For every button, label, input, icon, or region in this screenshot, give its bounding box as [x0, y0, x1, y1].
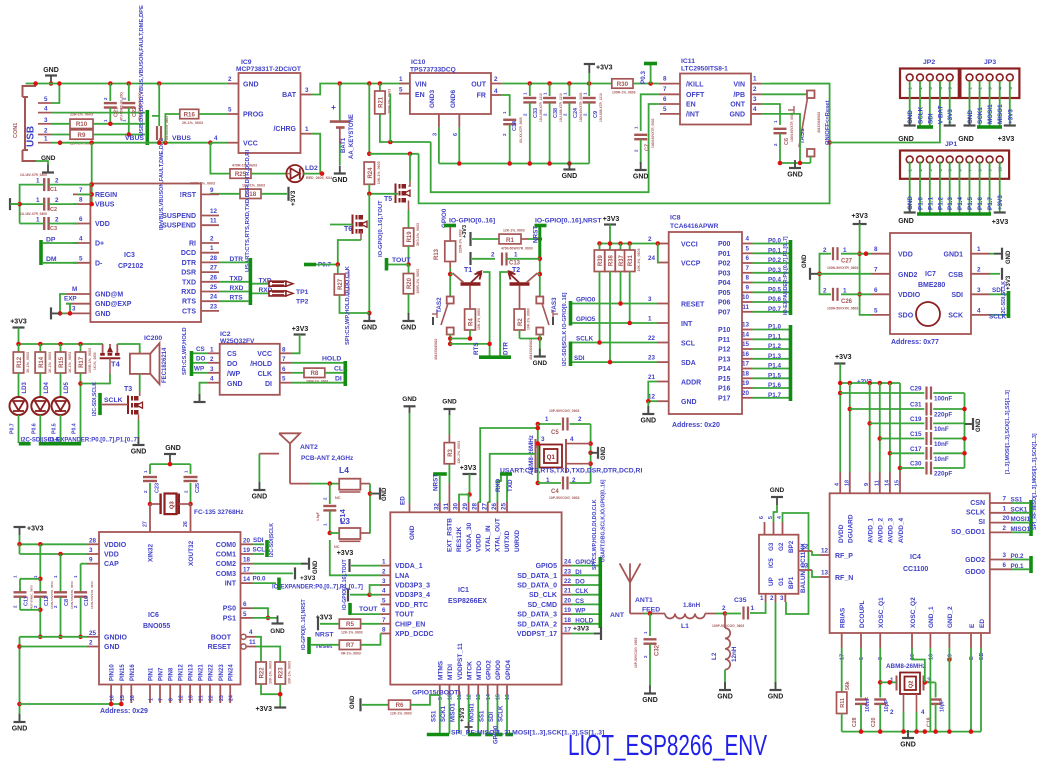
svg-text:P1.5: P1.5 — [768, 372, 781, 379]
svg-text:TXD: TXD — [182, 279, 196, 286]
IC2 left stubs — [208, 352, 220, 354]
svg-text:PCB-ANT 2,4GHz: PCB-ANT 2,4GHz — [301, 455, 353, 462]
svg-text:P0.4: P0.4 — [72, 423, 78, 434]
TAS2 GND bar left — [432, 317, 434, 325]
svg-text:6: 6 — [453, 133, 459, 136]
svg-text:5: 5 — [663, 106, 667, 113]
svg-text:GND@M: GND@M — [95, 292, 123, 299]
svg-text:G2: G2 — [778, 542, 785, 551]
svg-text:23: 23 — [564, 568, 572, 575]
capacitor C11 — [20, 578, 40, 580]
svg-text:1: 1 — [210, 245, 214, 252]
resistor R22 — [256, 662, 266, 684]
svg-text:100N-50VX7R_0603: 100N-50VX7R_0603 — [90, 581, 94, 609]
svg-text:21: 21 — [199, 695, 205, 701]
I2C/GPIO flag bar left — [569, 301, 573, 326]
svg-text:GND: GND — [165, 445, 181, 452]
svg-text:/KILL: /KILL — [686, 81, 704, 88]
U0RXD/U0TXD to USART bar — [500, 472, 512, 476]
svg-text:PIN21: PIN21 — [199, 664, 205, 681]
svg-text:L2: L2 — [711, 652, 718, 660]
svg-text:2: 2 — [773, 143, 778, 146]
svg-text:GND: GND — [976, 418, 982, 432]
svg-text:COM0: COM0 — [216, 542, 236, 549]
Q1 left vertical — [537, 424, 539, 483]
svg-text:DI: DI — [335, 376, 342, 383]
svg-text:4: 4 — [494, 88, 498, 95]
crystal top rail — [150, 463, 191, 465]
speaker IC200 FEC1826214 — [130, 354, 150, 374]
SCLK flag for T3 gate — [98, 393, 102, 415]
svg-text:ANT1: ANT1 — [635, 597, 653, 604]
TAS2 bottom / R4 bottom to RTS node — [449, 335, 451, 344]
svg-text:IC4: IC4 — [910, 554, 921, 561]
svg-text:R22: R22 — [260, 667, 266, 679]
svg-text:11: 11 — [210, 218, 217, 225]
capacitor C34 — [501, 95, 510, 116]
svg-text:1: 1 — [36, 217, 40, 224]
svg-text:VBUS: VBUS — [125, 135, 144, 142]
svg-text:VDDA_1: VDDA_1 — [395, 563, 423, 570]
svg-text:27: 27 — [481, 502, 488, 510]
TAS1 bottom to gnd rail — [810, 157, 812, 164]
svg-text:11: 11 — [249, 639, 256, 646]
svg-text:2: 2 — [184, 490, 189, 493]
svg-text:GND: GND — [601, 446, 607, 460]
IC7 left stubs — [871, 253, 890, 255]
svg-text:1: 1 — [753, 76, 757, 83]
svg-text:C1: C1 — [50, 187, 57, 193]
svg-text:3: 3 — [753, 96, 757, 103]
svg-text:SPI:CS,WP,HOLD,DI,DO,CLK: SPI:CS,WP,HOLD,DI,DO,CLK — [592, 499, 598, 570]
svg-text:PIN10: PIN10 — [110, 664, 116, 681]
svg-text:/CHRG: /CHRG — [273, 126, 296, 133]
svg-text:DTR: DTR — [503, 342, 510, 355]
svg-text:20: 20 — [1003, 515, 1011, 522]
svg-text:9: 9 — [438, 697, 444, 700]
svg-text:DI: DI — [575, 569, 582, 576]
svg-text:SCK1: SCK1 — [977, 107, 984, 124]
svg-text:23: 23 — [219, 695, 225, 701]
svg-text:GND: GND — [270, 628, 285, 635]
svg-text:REGIN: REGIN — [95, 192, 117, 199]
svg-text:IC8: IC8 — [670, 215, 681, 222]
svg-text:5: 5 — [874, 307, 878, 314]
svg-text:XPD_DCDC: XPD_DCDC — [395, 631, 434, 638]
svg-text:EN: EN — [686, 102, 696, 109]
svg-text:18: 18 — [564, 617, 572, 624]
svg-text:10U-X68-X7R_1210: 10U-X68-X7R_1210 — [599, 93, 603, 122]
svg-text:+3V3: +3V3 — [947, 109, 954, 124]
svg-text:15: 15 — [895, 480, 901, 486]
svg-text:P0.1: P0.1 — [1011, 563, 1024, 570]
svg-text:IC2: IC2 — [220, 331, 231, 338]
svg-text:10P-50VCOG_0603: 10P-50VCOG_0603 — [549, 496, 579, 500]
svg-text:TP1: TP1 — [296, 289, 309, 296]
svg-text:P0.6: P0.6 — [768, 296, 781, 303]
gnd bar for C13 — [469, 252, 471, 265]
svg-text:DTR: DTR — [230, 256, 244, 263]
svg-text:27: 27 — [143, 521, 149, 527]
resistor R39 — [599, 244, 601, 251]
svg-text:2: 2 — [55, 217, 59, 224]
svg-text:20: 20 — [243, 537, 251, 544]
svg-text:IC6: IC6 — [148, 612, 159, 619]
svg-text:13: 13 — [821, 570, 829, 577]
svg-text:1: 1 — [1003, 505, 1007, 512]
svg-text:12: 12 — [210, 208, 218, 215]
svg-text:SDI: SDI — [253, 537, 264, 544]
svg-text:RESET: RESET — [208, 644, 232, 651]
svg-text:28: 28 — [210, 255, 218, 262]
svg-text:VCC: VCC — [243, 140, 258, 147]
IC3 GND pin stubs — [66, 293, 90, 295]
ESP top stubs — [439, 502, 441, 512]
svg-text:7: 7 — [874, 266, 878, 273]
svg-text:1: 1 — [977, 246, 981, 253]
svg-text:R6: R6 — [396, 702, 404, 709]
svg-text:JP3: JP3 — [984, 59, 996, 66]
svg-text:GND: GND — [562, 173, 578, 180]
svg-text:RES12K: RES12K — [456, 526, 463, 552]
svg-text:CS: CS — [227, 351, 237, 358]
svg-text:U0RXD: U0RXD — [514, 530, 521, 552]
svg-text:GND: GND — [641, 418, 657, 425]
svg-text:RXD: RXD — [230, 285, 244, 292]
svg-text:CC1100: CC1100 — [903, 566, 928, 573]
svg-text:LD3: LD3 — [22, 382, 28, 394]
svg-text:TOUT: TOUT — [395, 612, 415, 619]
svg-text:1: 1 — [843, 247, 847, 254]
EN chain rail — [431, 104, 659, 192]
svg-text:CP2102: CP2102 — [118, 263, 143, 270]
svg-text:R9: R9 — [78, 132, 86, 139]
svg-text:14: 14 — [884, 479, 890, 486]
svg-text:10: 10 — [742, 294, 750, 301]
resistor R21 — [379, 84, 381, 92]
svg-text:P0.5: P0.5 — [768, 286, 781, 293]
svg-text:10P-50VCOG_0603: 10P-50VCOG_0603 — [634, 638, 638, 668]
svg-text:SCK1: SCK1 — [1011, 506, 1028, 513]
svg-text:GND: GND — [642, 697, 658, 704]
svg-text:JP2: JP2 — [923, 59, 935, 66]
svg-text:3: 3 — [977, 287, 981, 294]
svg-text:GNDIO: GNDIO — [104, 634, 128, 641]
varistor/filter cap at VBUS — [152, 84, 159, 116]
svg-text:4: 4 — [214, 135, 218, 142]
svg-text:DO: DO — [196, 356, 206, 363]
USB connector CON1 — [23, 86, 37, 97]
svg-text:MTCK: MTCK — [466, 661, 473, 680]
GND2 wire — [820, 273, 872, 275]
svg-text:5: 5 — [859, 657, 865, 660]
svg-text:5: 5 — [243, 611, 247, 618]
ground symbol under cap rail — [568, 164, 570, 170]
IC10 pin2 OUT stub — [491, 83, 501, 85]
capacitor C26 — [841, 293, 871, 295]
svg-text:P04: P04 — [718, 280, 731, 287]
svg-text:4: 4 — [570, 436, 574, 443]
wire IC5 pin4 to pin3 loop — [783, 513, 809, 614]
antenna feed wire — [290, 483, 310, 485]
svg-text:P1.7: P1.7 — [768, 392, 781, 399]
svg-text:10U-X68-X7R_1210: 10U-X68-X7R_1210 — [559, 93, 563, 122]
svg-text:IO-GPIO[0..16],TOUT: IO-GPIO[0..16],TOUT — [378, 200, 384, 257]
resistor R25 — [210, 143, 230, 174]
svg-text:E: E — [969, 656, 975, 660]
svg-text:TOUT: TOUT — [359, 606, 378, 613]
svg-text:[1..3],MOSI[1..3],SCK[1..3],SS: [1..3],MOSI[1..3],SCK[1..3],SS[1..3] — [1005, 390, 1011, 474]
svg-text:GND: GND — [382, 487, 388, 501]
svg-text:SDI: SDI — [927, 113, 934, 124]
transistor T1 NPN — [461, 282, 481, 285]
svg-text:6: 6 — [282, 366, 286, 373]
svg-text:P01: P01 — [718, 251, 731, 258]
svg-text:1: 1 — [184, 470, 189, 473]
svg-text:C5: C5 — [551, 430, 559, 436]
svg-text:10P-50VCOG_0603: 10P-50VCOG_0603 — [549, 409, 579, 413]
capacitor C28 — [860, 648, 862, 698]
svg-text:TXD: TXD — [507, 479, 514, 492]
GPIO0 wire to RESET — [572, 303, 657, 305]
resistor R10 — [52, 123, 70, 125]
svg-text:SCLK: SCLK — [966, 510, 985, 517]
svg-text:100N-50VX7R_0603: 100N-50VX7R_0603 — [651, 118, 655, 148]
svg-text:3: 3 — [305, 87, 309, 94]
svg-text:P1.0: P1.0 — [918, 197, 925, 210]
svg-text:16: 16 — [505, 694, 511, 700]
svg-text:C3: C3 — [50, 226, 57, 232]
vertical wire VBUS to REGIN/VBUS pins — [91, 143, 93, 204]
svg-text:PIN8: PIN8 — [169, 667, 175, 681]
svg-text:VDDIO: VDDIO — [104, 542, 127, 549]
svg-text:VBUS: VBUS — [95, 202, 115, 209]
IC10 GND3 pin stub down — [438, 114, 440, 127]
svg-text:434333045822: 434333045822 — [529, 338, 533, 360]
svg-text:TPS73733DCQ: TPS73733DCQ — [410, 67, 456, 74]
svg-text:T1: T1 — [464, 267, 472, 274]
resistor R37 — [620, 244, 622, 251]
IC4 GDO pins — [990, 559, 1012, 561]
ADDR tied to GND pin — [648, 382, 657, 402]
svg-text:CTS: CTS — [182, 308, 196, 315]
IC3 left pin stubs — [73, 193, 90, 195]
svg-text:4: 4 — [921, 709, 925, 716]
svg-text:W25Q32FV: W25Q32FV — [220, 338, 255, 345]
svg-text:1: 1 — [523, 92, 528, 95]
svg-text:GPIO5: GPIO5 — [576, 316, 596, 323]
svg-text:+3V3: +3V3 — [462, 225, 468, 238]
svg-text:IC5: IC5 — [768, 558, 775, 568]
svg-text:R5: R5 — [346, 621, 354, 628]
svg-text:P07: P07 — [718, 309, 731, 316]
svg-text:GND6: GND6 — [450, 90, 457, 108]
svg-text:P0.7: P0.7 — [768, 306, 781, 313]
pullup rail — [600, 243, 658, 245]
svg-text:10K-1%_0603: 10K-1%_0603 — [269, 661, 273, 684]
antenna ANT2 PCB-ANT 2.4GHz — [279, 433, 300, 443]
svg-text:12K-1%_0603: 12K-1%_0603 — [457, 441, 461, 464]
svg-text:P1.6: P1.6 — [768, 382, 781, 389]
wire REGIN — [78, 193, 92, 195]
svg-text:1U-16V-X7R_0805: 1U-16V-X7R_0805 — [20, 212, 47, 216]
svg-text:GND: GND — [770, 487, 785, 494]
capacitor C7 — [634, 134, 647, 136]
svg-text:2: 2 — [643, 655, 648, 658]
svg-text:23: 23 — [210, 303, 218, 310]
svg-text:+3V3: +3V3 — [997, 195, 1004, 210]
IC8 left stubs — [657, 243, 669, 245]
svg-text:AA_KEYSTONE: AA_KEYSTONE — [349, 114, 355, 159]
svg-text:XOSC_Q2: XOSC_Q2 — [910, 597, 917, 628]
capacitor C10 — [80, 564, 82, 592]
svg-text:26: 26 — [210, 274, 218, 281]
svg-text:LNA: LNA — [395, 573, 409, 580]
svg-text:MOSI1: MOSI1 — [470, 703, 476, 722]
svg-text:VDDD: VDDD — [475, 533, 482, 552]
svg-text:AVDD_4: AVDD_4 — [898, 517, 905, 543]
svg-text:GND: GND — [227, 381, 243, 388]
SDI wire to I2C bar — [990, 293, 1007, 295]
svg-text:R38: R38 — [609, 254, 615, 266]
svg-text:100N-50VX7R_0603: 100N-50VX7R_0603 — [827, 307, 858, 311]
svg-text:9: 9 — [864, 483, 870, 486]
svg-text:Address: 0x29: Address: 0x29 — [100, 708, 148, 715]
svg-text:BAT: BAT — [282, 92, 297, 99]
svg-text:D+: D+ — [95, 241, 104, 248]
svg-text:HOLD: HOLD — [575, 617, 593, 624]
wire T6 source down to P0.7 node — [360, 231, 362, 240]
svg-text:ESP8266EX: ESP8266EX — [448, 598, 487, 605]
svg-text:12K-1%_0603: 12K-1%_0603 — [341, 631, 363, 635]
GND rail under IC10 caps — [439, 163, 589, 165]
svg-text:SCK1: SCK1 — [441, 705, 447, 722]
svg-text:SUSPEND: SUSPEND — [162, 213, 196, 220]
svg-text:VDDIO: VDDIO — [898, 292, 921, 299]
svg-text:25: 25 — [210, 284, 218, 291]
wire R16 to IC9 PROG — [199, 113, 228, 115]
svg-text:VCCP: VCCP — [681, 261, 701, 268]
svg-text:+3V3: +3V3 — [835, 354, 852, 361]
svg-text:C7: C7 — [645, 144, 651, 151]
svg-text:1: 1 — [36, 178, 40, 185]
svg-text:10K-1%_0603: 10K-1%_0603 — [527, 308, 531, 330]
+3V3 for VDD3P3 pins — [347, 589, 349, 602]
svg-text:2: 2 — [55, 197, 59, 204]
svg-text:SPI:CS,WP,HOLD: SPI:CS,WP,HOLD — [182, 327, 188, 375]
ground under IC4 rail — [907, 732, 909, 738]
ground left of IC3 GND pins — [51, 312, 59, 314]
svg-text:VDD3P3_3: VDD3P3_3 — [395, 583, 430, 590]
svg-text:FR: FR — [477, 93, 486, 100]
svg-text:10nF: 10nF — [934, 441, 949, 448]
svg-text:C20: C20 — [871, 717, 877, 727]
svg-text:AVDD_2: AVDD_2 — [878, 517, 885, 543]
svg-text:12: 12 — [467, 694, 473, 700]
JP2 bus stub bar — [917, 125, 933, 129]
capacitor C1 — [43, 178, 45, 191]
svg-text:GND: GND — [131, 449, 147, 456]
svg-text:19: 19 — [243, 547, 251, 554]
ground above R3 — [448, 435, 450, 443]
svg-text:ED: ED — [979, 619, 986, 628]
svg-text:2: 2 — [1003, 525, 1007, 532]
capacitor C24 — [568, 84, 570, 97]
svg-text:/PB: /PB — [733, 92, 745, 99]
INT to P0.0 flag — [253, 582, 277, 584]
svg-text:1K-1%_0603: 1K-1%_0603 — [48, 352, 52, 373]
svg-text:VDD_RTC: VDD_RTC — [395, 602, 428, 609]
svg-text:IC9: IC9 — [241, 59, 252, 66]
IC5 right stubs to IC4 — [799, 550, 813, 552]
svg-text:Q3: Q3 — [170, 500, 176, 509]
svg-text:TOUT: TOUT — [392, 257, 411, 264]
svg-text:P0.4: P0.4 — [768, 277, 781, 284]
svg-text:R8: R8 — [310, 370, 318, 377]
svg-text:VCC: VCC — [257, 351, 272, 358]
capacitor C14 — [329, 484, 331, 504]
svg-text:GND: GND — [313, 560, 319, 574]
svg-text:SD_DATA_2: SD_DATA_2 — [517, 621, 557, 628]
svg-text:+3V3: +3V3 — [992, 219, 1009, 226]
svg-text:+3V3: +3V3 — [998, 136, 1015, 143]
svg-text:TCA6416APWR: TCA6416APWR — [670, 223, 719, 230]
svg-text:GND: GND — [907, 110, 914, 124]
svg-text:3: 3 — [72, 306, 76, 313]
TOUT net flag — [408, 246, 410, 265]
svg-text:30: 30 — [453, 502, 460, 510]
svg-text:PIN12: PIN12 — [179, 664, 185, 681]
svg-text:2: 2 — [494, 76, 498, 83]
svg-text:TAS2: TAS2 — [436, 297, 443, 313]
svg-text:BNO055: BNO055 — [143, 623, 170, 630]
svg-text:C4: C4 — [551, 489, 559, 495]
wire USB pin5 to GND rail — [52, 84, 59, 104]
svg-text:GND: GND — [958, 136, 974, 143]
svg-text:GND: GND — [362, 325, 378, 332]
junction dots on GND rail — [108, 81, 113, 86]
flash IC2 W25Q32FV — [220, 344, 280, 395]
svg-text:IO-EXPANDER:P0.[0..7],P1.[0..7: IO-EXPANDER:P0.[0..7],P1.[0..7] — [272, 585, 363, 591]
svg-text:IC10: IC10 — [411, 59, 426, 66]
svg-text:Address: 0x20: Address: 0x20 — [672, 422, 720, 429]
svg-text:1: 1 — [103, 119, 108, 122]
svg-text:1.8pF: 1.8pF — [316, 512, 320, 521]
svg-text:!SUSPEND: !SUSPEND — [160, 223, 196, 230]
rail to T5 drain — [369, 153, 418, 155]
svg-text:1: 1 — [773, 120, 778, 123]
svg-text:11: 11 — [874, 480, 880, 486]
svg-text:18: 18 — [243, 557, 251, 564]
C27/C26 left vertical to GND — [820, 254, 832, 295]
SCLK wire to SCL — [572, 342, 657, 344]
wire R24 bottom to T5 gate — [369, 184, 398, 194]
svg-text:Q2: Q2 — [909, 681, 915, 688]
resistor R3 (RES12K) — [448, 483, 450, 502]
svg-text:BOOT: BOOT — [211, 634, 232, 641]
svg-text:IC200: IC200 — [144, 335, 162, 342]
svg-text:Address: 0x77: Address: 0x77 — [891, 339, 939, 346]
I2C flag bar right of IC7 — [1007, 291, 1011, 318]
svg-text:2: 2 — [722, 605, 726, 612]
resistor R16 — [165, 114, 179, 143]
wire BAT to +BAT rail — [311, 84, 410, 95]
svg-text:RF_N: RF_N — [835, 575, 853, 582]
ESP bottom pin wires to SPI bus — [439, 695, 441, 734]
IC5 bottom stubs — [765, 594, 767, 602]
svg-text:PIN23: PIN23 — [219, 664, 225, 681]
svg-text:R1: R1 — [506, 237, 514, 244]
